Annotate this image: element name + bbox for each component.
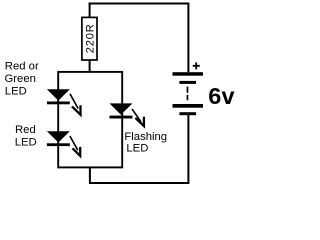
- svg-text:Flashing: Flashing: [124, 131, 167, 143]
- svg-text:Green: Green: [5, 73, 36, 85]
- svg-text:LED: LED: [15, 137, 37, 149]
- svg-text:LED: LED: [5, 85, 27, 97]
- svg-text:LED: LED: [126, 143, 148, 155]
- svg-text:Red or: Red or: [5, 61, 39, 73]
- svg-text:6v: 6v: [208, 83, 235, 109]
- svg-text:220R: 220R: [85, 23, 97, 53]
- svg-text:Red: Red: [15, 124, 36, 136]
